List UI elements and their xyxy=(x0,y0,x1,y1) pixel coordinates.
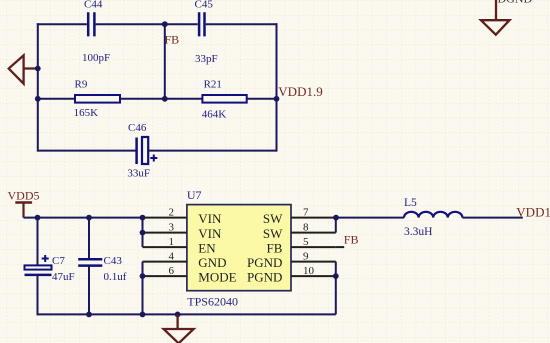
wire: R9 to R21 xyxy=(120,98,202,100)
svg-text:FB: FB xyxy=(266,240,282,255)
svg-text:VIN: VIN xyxy=(198,211,222,226)
svg-text:3: 3 xyxy=(169,222,175,234)
power port DGND (top right) xyxy=(481,0,533,35)
svg-text:FB: FB xyxy=(165,33,180,47)
junction: rail / C7 xyxy=(35,215,41,221)
wire: SW tie (pin8 up to pin7) xyxy=(335,218,337,233)
capacitor C45 xyxy=(195,0,218,65)
junction: SW node xyxy=(333,215,339,221)
svg-text:4: 4 xyxy=(169,251,175,263)
svg-text:3.3uH: 3.3uH xyxy=(404,226,432,238)
wire: R21 to right vertical xyxy=(247,98,277,100)
svg-text:MODE: MODE xyxy=(198,269,236,284)
pin 6 MODE xyxy=(143,265,237,284)
svg-text:SW: SW xyxy=(263,211,283,226)
junction: rail / U7 ground tie xyxy=(140,312,146,318)
svg-text:VDD1.9: VDD1.9 xyxy=(278,84,322,99)
svg-text:9: 9 xyxy=(303,251,309,263)
wire: C7 top lead xyxy=(37,218,39,266)
pin 10 PGND xyxy=(247,265,336,284)
svg-text:GND: GND xyxy=(198,255,226,270)
svg-text:6: 6 xyxy=(169,265,175,277)
svg-text:VIN: VIN xyxy=(198,226,222,241)
wire: L5 to VDD1.9 xyxy=(462,217,522,219)
pin 1 EN xyxy=(143,236,217,255)
wire: C43 top lead xyxy=(88,218,90,260)
svg-text:165K: 165K xyxy=(74,107,99,119)
ground symbol (bottom) xyxy=(164,314,194,343)
wire: top-left to C44 xyxy=(37,23,87,25)
wire: GND/MODE tie to ground rail xyxy=(142,262,144,315)
svg-text:R9: R9 xyxy=(75,79,88,91)
pin 3 VIN xyxy=(143,222,223,241)
pin 4 GND xyxy=(143,251,227,270)
svg-text:C43: C43 xyxy=(104,255,123,267)
wire: SW node to L5 xyxy=(336,217,404,219)
svg-text:FB: FB xyxy=(344,233,359,247)
capacitor C7 (polarized) xyxy=(25,255,75,283)
wire: C45 to right corner xyxy=(206,23,278,25)
svg-text:8: 8 xyxy=(303,222,309,234)
svg-text:7: 7 xyxy=(303,207,309,219)
wire: FB vertical xyxy=(164,24,166,99)
svg-text:100pF: 100pF xyxy=(82,52,110,64)
svg-text:L5: L5 xyxy=(404,197,417,209)
junction: tie / pin10 xyxy=(333,273,339,279)
IC U7 TPS62040 body xyxy=(187,188,291,309)
svg-text:5: 5 xyxy=(303,236,309,248)
svg-text:33uF: 33uF xyxy=(127,168,150,180)
wire: VIN/EN tie (left vertical) xyxy=(142,218,144,248)
svg-text:R21: R21 xyxy=(204,79,222,91)
pin 8 SW xyxy=(263,222,336,241)
wire: left vertical of feedback loop xyxy=(37,23,39,151)
junction: left vertical / R9 row xyxy=(35,96,41,102)
pin 2 VIN xyxy=(143,207,223,226)
svg-text:VDD1.9: VDD1.9 xyxy=(516,204,550,219)
svg-text:VDD5: VDD5 xyxy=(8,188,40,202)
junction: rail / ground symbol xyxy=(175,312,181,318)
wire: left vertical to R9 xyxy=(38,98,75,100)
wire: C7 bottom lead xyxy=(37,275,39,316)
wire: bottom-left to C46 xyxy=(38,150,137,152)
svg-text:0.1uf: 0.1uf xyxy=(104,271,127,283)
svg-text:10: 10 xyxy=(303,265,315,277)
svg-text:33pF: 33pF xyxy=(195,53,218,65)
svg-text:C45: C45 xyxy=(195,0,214,11)
svg-text:C44: C44 xyxy=(84,0,103,11)
svg-text:PGND: PGND xyxy=(247,255,282,270)
svg-text:SW: SW xyxy=(263,226,283,241)
capacitor C44 xyxy=(82,0,110,64)
junction: rail / C43 bottom xyxy=(86,312,92,318)
pin 7 SW xyxy=(263,207,336,226)
wire: C44 to FB node xyxy=(96,23,165,25)
junction: FB / resistor row xyxy=(162,96,168,102)
wire: VDD5 rail to U7 xyxy=(24,217,143,219)
svg-text:PGND: PGND xyxy=(247,269,282,284)
power port VDD5 xyxy=(8,188,40,217)
resistor R9 xyxy=(74,79,120,119)
wire: FB node to C45 xyxy=(165,23,198,25)
svg-text:U7: U7 xyxy=(187,188,202,202)
wire: C46 to right vertical xyxy=(148,150,276,152)
svg-text:C7: C7 xyxy=(52,255,65,267)
wire: FB stub xyxy=(336,246,344,248)
capacitor C43 xyxy=(78,255,127,283)
svg-text:EN: EN xyxy=(198,240,216,255)
junction: rail / C43 xyxy=(86,215,92,221)
pin 5 FB xyxy=(266,236,335,255)
resistor R21 xyxy=(202,79,247,121)
svg-text:464K: 464K xyxy=(202,108,227,120)
wire: right vertical (VDD1.9 column) xyxy=(276,23,278,151)
wire: C43 bottom lead xyxy=(88,266,90,315)
svg-text:2: 2 xyxy=(169,207,175,219)
wire: PGND tie to ground rail xyxy=(335,262,337,315)
inductor L5 xyxy=(404,197,462,238)
svg-text:47uF: 47uF xyxy=(52,271,75,283)
junction: FB node (top) xyxy=(162,21,168,27)
svg-text:1: 1 xyxy=(169,236,175,248)
port arrow (harness entry, left) xyxy=(9,55,36,83)
svg-text:DGND: DGND xyxy=(498,0,533,5)
junction: VDD1.9 / R21 row xyxy=(274,96,280,102)
capacitor C46 (polarized) xyxy=(127,122,157,180)
junction: port node xyxy=(35,66,41,72)
svg-text:C46: C46 xyxy=(128,122,147,134)
pin 9 PGND xyxy=(247,251,336,270)
svg-text:TPS62040: TPS62040 xyxy=(187,294,238,308)
junction: tie / pin3 xyxy=(140,230,146,236)
junction: tie / pin6 xyxy=(140,273,146,279)
junction: rail / pin2 / tie xyxy=(140,215,146,221)
wire: ground rail (bottom) xyxy=(38,313,336,315)
